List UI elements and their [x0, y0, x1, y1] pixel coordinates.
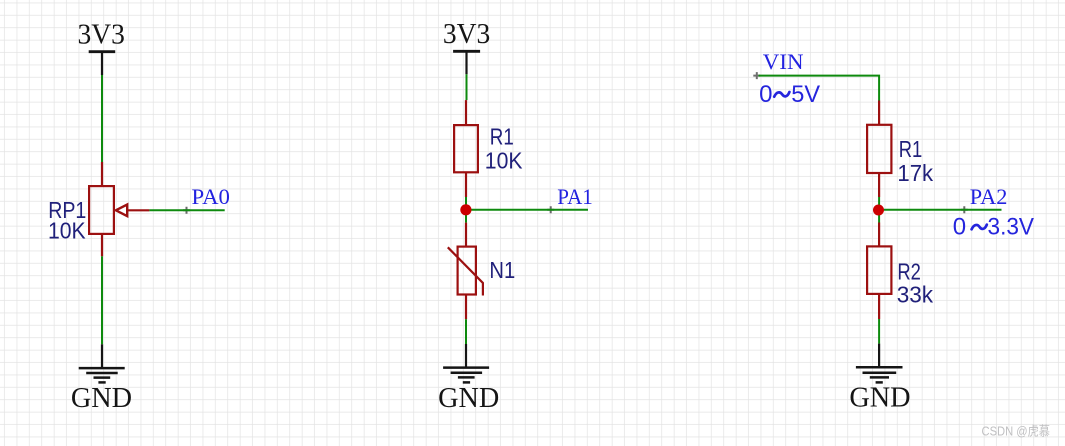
- resistor R1 body (right): [867, 125, 891, 173]
- port range label 0~5V: [759, 81, 820, 108]
- svg-text:R1: R1: [899, 136, 923, 162]
- svg-text:3V3: 3V3: [443, 19, 490, 50]
- junction dot (middle): [460, 204, 471, 215]
- svg-text:GND: GND: [438, 383, 499, 414]
- wire 3V3 to R1 (middle): [466, 74, 468, 100]
- svg-text:CSDN @虎慕: CSDN @虎慕: [982, 423, 1051, 438]
- wire RP1 to GND (left): [101, 256, 103, 344]
- pin R2 bottom: [878, 294, 880, 319]
- pin RP1 bottom: [101, 234, 103, 256]
- resistor R1 body (middle): [454, 125, 478, 172]
- svg-text:33k: 33k: [897, 282, 934, 308]
- svg-text:GND: GND: [71, 383, 132, 414]
- wire wiper to PA0: [149, 209, 224, 211]
- net label anchor cross PA2: [961, 206, 968, 213]
- power bar symbol 3V3 (left): [89, 52, 116, 75]
- svg-text:PA0: PA0: [192, 184, 230, 209]
- pin R2 top: [878, 223, 880, 247]
- svg-text:PA1: PA1: [557, 184, 593, 209]
- power bar symbol 3V3 (middle): [453, 51, 480, 74]
- pin RP1 wiper: [127, 209, 149, 211]
- svg-text:17k: 17k: [897, 160, 933, 186]
- wire R2 to GND (right): [878, 319, 880, 344]
- pin RP1 top: [101, 162, 103, 186]
- net label anchor cross PA1: [547, 206, 554, 213]
- svg-text:3V3: 3V3: [77, 19, 124, 50]
- net label anchor cross VIN: [753, 72, 760, 79]
- svg-text:3.3V: 3.3V: [988, 213, 1035, 240]
- potentiometer RP1 body: [89, 186, 114, 234]
- svg-text:R1: R1: [490, 124, 514, 150]
- svg-text:N1: N1: [489, 257, 515, 283]
- pin N1 bottom: [465, 295, 467, 320]
- ground symbol (middle): [443, 344, 489, 382]
- port range label 0~3.3V: [953, 213, 1034, 240]
- pin R1 bottom (middle): [465, 173, 467, 197]
- svg-text:GND: GND: [849, 382, 910, 413]
- thermistor N1 body: [458, 247, 476, 295]
- resistor R2 body: [867, 246, 891, 294]
- svg-text:10K: 10K: [48, 218, 86, 244]
- thermistor N1 diagonal stroke: [448, 247, 483, 295]
- wire R1 to junction (middle): [465, 197, 467, 210]
- svg-text:VIN: VIN: [763, 49, 804, 74]
- pin R1 bottom (right): [878, 173, 880, 197]
- svg-text:PA2: PA2: [970, 184, 1008, 209]
- pin R1 top (middle): [465, 100, 467, 125]
- wire junction to R2: [878, 210, 880, 223]
- svg-text:0: 0: [953, 213, 966, 240]
- svg-text:5V: 5V: [791, 81, 820, 108]
- ground symbol (left): [79, 344, 125, 382]
- potentiometer RP1 wiper arrow: [116, 205, 127, 217]
- junction dot (right): [873, 205, 884, 216]
- svg-text:0: 0: [759, 81, 772, 108]
- pin N1 top: [465, 223, 467, 246]
- wire R1 to junction (right): [878, 197, 880, 210]
- svg-text:10K: 10K: [485, 148, 523, 174]
- pin R1 top (right): [878, 101, 880, 125]
- wire N1 to GND (middle): [465, 319, 467, 344]
- wire junction to PA1: [466, 209, 588, 211]
- wire VIN horizontal: [759, 76, 880, 101]
- ground symbol (right): [856, 344, 903, 383]
- net label anchor cross PA0: [183, 207, 190, 214]
- wire 3V3 to RP1 (left): [101, 75, 103, 162]
- wire junction to N1: [465, 210, 467, 223]
- wire junction to PA2: [879, 209, 1001, 211]
